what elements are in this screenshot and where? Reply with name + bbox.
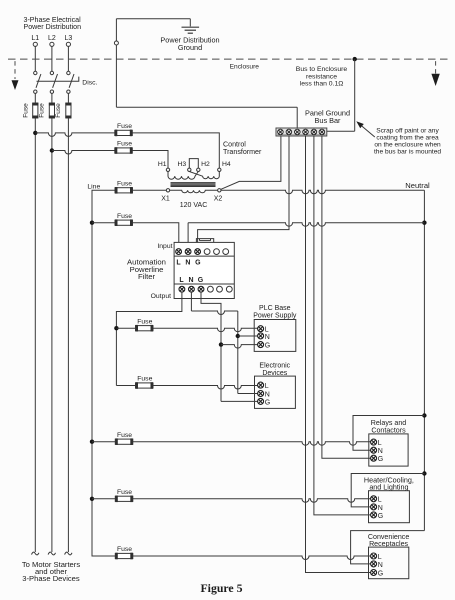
svg-text:Fuse: Fuse [137, 376, 152, 383]
svg-text:Fuse: Fuse [117, 123, 132, 130]
svg-text:less than 0.1Ω: less than 0.1Ω [300, 80, 344, 87]
wire enclosure bond vertical [354, 59, 356, 131]
svg-text:N: N [185, 259, 190, 266]
svg-text:L: L [176, 259, 181, 266]
svg-text:Neutral: Neutral [405, 181, 430, 190]
svg-text:Line: Line [87, 183, 100, 190]
svg-text:L: L [378, 440, 382, 447]
svg-text:G: G [195, 259, 201, 266]
transformer T1 core [171, 182, 216, 184]
svg-text:Output: Output [151, 293, 172, 300]
disconnect gang link [37, 77, 79, 82]
svg-text:G: G [265, 399, 270, 406]
transformer T1 primary winding left [168, 172, 198, 180]
wire L2 tap to fuse [52, 151, 115, 155]
filter U1 output terminals [179, 286, 185, 292]
svg-text:L: L [179, 277, 184, 284]
svg-text:H2: H2 [201, 161, 210, 168]
svg-text:Fuse: Fuse [117, 546, 132, 553]
node PLC G junction [219, 342, 223, 346]
fuse F8 (PLC) [136, 325, 154, 332]
svg-text:G: G [265, 343, 270, 350]
svg-text:coating from the area: coating from the area [376, 134, 439, 141]
wire relays fuse to L [133, 442, 371, 446]
wire fuse to filter L input [133, 223, 179, 249]
svg-text:Fuse: Fuse [117, 489, 132, 496]
wire fuse to H4 [132, 133, 219, 168]
node PLC N junction [236, 334, 240, 338]
wire filter L output [116, 292, 181, 385]
svg-text:N: N [188, 277, 193, 284]
relays box [369, 434, 408, 466]
svg-text:N: N [378, 562, 383, 569]
svg-text:Figure 5: Figure 5 [200, 581, 242, 595]
wire L2 vertical [51, 118, 53, 552]
svg-text:PLC Base: PLC Base [259, 305, 291, 312]
fuse F3 (L3) [65, 103, 71, 118]
svg-text:G: G [378, 570, 383, 577]
heater box [369, 491, 410, 523]
svg-text:the bus bar is mounted: the bus bar is mounted [374, 149, 441, 156]
svg-text:N: N [378, 448, 383, 455]
wire ground drop to heater [314, 136, 371, 515]
svg-text:Enclosure: Enclosure [230, 63, 260, 70]
fuse F1 (L1) [32, 103, 38, 118]
node ground riser connection point [114, 41, 118, 45]
svg-text:Fuse: Fuse [117, 432, 132, 439]
transformer T1 secondary winding [170, 190, 218, 192]
svg-text:H3: H3 [177, 161, 186, 168]
svg-text:G: G [198, 277, 204, 284]
transformer T1 secondary terminal X1 [166, 189, 169, 192]
wire PLC G connection [221, 345, 258, 349]
wire bus bar to filter G input [198, 136, 289, 249]
svg-text:Disc.: Disc. [82, 80, 97, 87]
relays terminals [371, 439, 377, 445]
wire L1 vertical [34, 118, 36, 552]
wire neutral rail [423, 190, 425, 530]
fuse F4 (transformer H4 feed) [115, 130, 133, 137]
receptacles terminals [371, 553, 377, 559]
fuse F12 (receptacles) [115, 553, 133, 560]
wire fuse to H1 [132, 151, 168, 169]
svg-text:Contactors: Contactors [371, 426, 406, 434]
wire ED G connection [221, 400, 258, 402]
wire L3 drop to disconnect [67, 46, 69, 71]
node line rail filter tap [90, 221, 94, 225]
transformer T1 primary winding right [189, 172, 219, 179]
svg-text:resistance: resistance [306, 73, 337, 80]
svg-text:Fuse: Fuse [117, 180, 132, 187]
svg-text:Ground: Ground [178, 43, 202, 52]
svg-text:Filter: Filter [138, 272, 156, 281]
heater terminals [371, 496, 377, 502]
wire ground from riser [116, 18, 190, 20]
fuse F9 (electronic devices) [136, 382, 154, 389]
disconnect switch pole 1 [34, 71, 37, 74]
wire neutral to filter N input [188, 223, 424, 227]
wire enclosure bond to bus bar [327, 130, 355, 132]
filter U1 input terminals [176, 249, 182, 255]
svg-text:Fuse: Fuse [23, 103, 30, 118]
wire rail to PLC fuse [116, 327, 135, 329]
wire X2 to neutral rail [221, 190, 424, 194]
svg-text:Bus to Enclosure: Bus to Enclosure [296, 66, 348, 73]
svg-text:X1: X1 [161, 195, 170, 202]
transformer T1 H3-H2 jumper [189, 159, 198, 169]
wire neutral to receptacles N [351, 531, 425, 564]
wire ED fuse to L [153, 386, 258, 390]
disconnect switch pole 3 [67, 71, 70, 74]
wire rail to heater fuse [92, 498, 115, 500]
wire fuse to X1 [133, 189, 167, 191]
node neutral-heater junction [422, 471, 426, 475]
svg-text:L2: L2 [48, 35, 56, 42]
wire filter G output [201, 292, 221, 401]
wire filter N output [190, 292, 192, 311]
svg-text:Power Distribution: Power Distribution [24, 23, 82, 31]
node line rail relays tap [90, 440, 94, 444]
node junction L2 tap [50, 148, 54, 152]
filter U1 box [174, 242, 234, 298]
svg-text:120 VAC: 120 VAC [180, 202, 208, 209]
node line rail heater tap [90, 497, 94, 501]
svg-text:Electronic: Electronic [259, 363, 290, 370]
wire neutral to heater N [351, 474, 424, 507]
disconnect switch pole 2 [50, 71, 53, 74]
svg-text:Transformer: Transformer [223, 148, 262, 156]
wire L1 tap to fuse [35, 133, 115, 137]
wire rail to ED fuse [116, 385, 135, 387]
svg-text:G: G [378, 456, 383, 463]
ground symbol [182, 26, 200, 28]
node L1 terminal [33, 42, 37, 46]
node neutral-relays junction [422, 413, 426, 417]
wire L3 vertical [67, 118, 69, 552]
svg-text:L: L [265, 327, 269, 334]
svg-text:Input: Input [157, 243, 172, 250]
wire L1 drop to disconnect [34, 46, 36, 71]
fuse F6 (line) [115, 187, 133, 194]
fuse F2 (L2) [49, 103, 55, 118]
svg-text:G: G [378, 513, 383, 520]
wire line bus corner [92, 190, 115, 222]
svg-text:X2: X2 [214, 195, 223, 202]
wire ground riser upper [115, 19, 117, 41]
wire ground drop to relays [322, 136, 371, 458]
wire rail to relays fuse [92, 441, 115, 443]
node filtered rail PLC tap [114, 326, 118, 330]
svg-text:L: L [378, 554, 382, 561]
receptacles box [369, 547, 409, 579]
svg-text:3-Phase Devices: 3-Phase Devices [22, 574, 80, 583]
wire disconnect pole 3 to fuse [67, 93, 69, 103]
svg-text:H1: H1 [158, 161, 167, 168]
svg-text:Fuse: Fuse [38, 103, 45, 118]
wire line rail [92, 223, 115, 556]
fuse F7 (filter feed) [115, 219, 133, 226]
wire PLC N connection [238, 335, 258, 337]
PLC terminals [258, 326, 264, 332]
wire line rail to fuse [92, 222, 115, 224]
fuse F10 (relays) [115, 438, 133, 445]
wire neutral to relays N [353, 416, 424, 451]
node L3 terminal [66, 42, 70, 46]
wire disconnect pole 1 to fuse [34, 93, 36, 103]
node neutral-filter junction [422, 221, 426, 225]
svg-text:N: N [378, 505, 383, 512]
wire ED N connection [238, 393, 258, 395]
wire L2 drop to disconnect [51, 46, 53, 71]
electronic devices terminals [258, 382, 264, 388]
svg-text:Fuse: Fuse [137, 318, 152, 325]
transformer T1 secondary terminal X2 [218, 189, 221, 192]
wire ground run to bus bar [116, 106, 297, 108]
svg-text:N: N [265, 334, 270, 341]
wire ground drop to bus bar [296, 107, 298, 128]
wire PLC fuse to L [153, 328, 258, 332]
fuse F5 (transformer H1 feed) [115, 147, 133, 154]
svg-text:L3: L3 [65, 35, 73, 42]
electronic devices box [255, 376, 296, 408]
scrap note arrow [356, 121, 364, 128]
PLC box [254, 320, 296, 352]
enclosure dashed boundary [8, 58, 450, 60]
svg-text:L1: L1 [31, 35, 39, 42]
svg-text:N: N [265, 391, 270, 398]
panel ground bus bar [276, 128, 327, 136]
svg-text:H4: H4 [222, 161, 231, 168]
wire ground drop to receptacles [306, 136, 371, 573]
enclosure right drop arrow [435, 61, 437, 73]
wire disconnect pole 2 to fuse [51, 93, 53, 103]
node junction L1 tap [33, 131, 37, 135]
wire X2 to ground bond [221, 136, 281, 189]
node L2 terminal [50, 42, 54, 46]
wire receptacles fuse to L [133, 556, 371, 560]
wire ground riser lower [115, 45, 117, 107]
wire ground stub [189, 19, 191, 27]
wire heater fuse to L [133, 499, 371, 503]
svg-text:Fuse: Fuse [117, 213, 132, 220]
svg-text:Power Supply: Power Supply [253, 312, 297, 319]
svg-text:Bus Bar: Bus Bar [315, 116, 342, 125]
svg-text:L: L [265, 383, 269, 390]
fuse F11 (heater) [115, 496, 133, 503]
enclosure left drop arrow [14, 61, 16, 79]
svg-text:Fuse: Fuse [55, 103, 62, 118]
svg-text:Fuse: Fuse [117, 141, 132, 148]
node enclosure bond junction [353, 57, 357, 61]
svg-text:L: L [378, 497, 382, 504]
svg-text:Scrap off paint or any: Scrap off paint or any [376, 127, 439, 134]
svg-text:on the enclosure when: on the enclosure when [374, 142, 441, 149]
